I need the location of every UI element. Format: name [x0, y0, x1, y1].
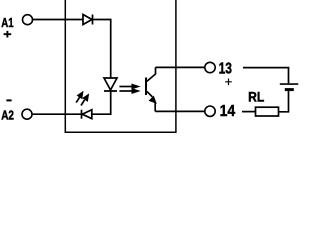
- wire D2 cathode down and left to LED D3: [92, 91, 111, 114]
- battery positive plate (long): [280, 83, 299, 85]
- wire A1 to diode D1: [33, 19, 83, 21]
- wire terminal 13 to battery: [243, 68, 289, 84]
- optocoupler module outline box (open top): [65, 0, 176, 132]
- LED emission arrow 2: [81, 100, 85, 106]
- Q1 collector: [147, 67, 156, 81]
- light arrow upper (opto coupling): [119, 86, 132, 88]
- plus sign at 13: [225, 79, 232, 86]
- svg-text:A1: A1: [1, 15, 13, 30]
- wire A2 to indicator LED: [32, 113, 81, 115]
- terminal 13: [205, 62, 215, 72]
- svg-text:A2: A2: [1, 107, 14, 122]
- indicator LED D3 (pointing left): [82, 110, 92, 119]
- wire collector to terminal 13: [156, 66, 205, 68]
- wire terminal 14 to RL: [242, 111, 256, 113]
- plus sign at A1: [4, 31, 12, 38]
- wire battery to resistor RL: [279, 91, 289, 112]
- minus sign at A2: [6, 99, 11, 101]
- resistor RL (load): [256, 107, 279, 116]
- wire emitter to terminal 14: [155, 110, 204, 112]
- wire D1 to corner, down to opto LED: [93, 20, 111, 79]
- svg-text:14: 14: [220, 103, 236, 120]
- svg-text:RL: RL: [248, 89, 264, 104]
- LED emission arrow 1: [76, 97, 80, 103]
- phototransistor Q1 base bar: [145, 78, 147, 96]
- terminal 14: [205, 106, 215, 116]
- battery negative plate (short, thick): [285, 88, 294, 91]
- Q1 emitter wire down: [154, 102, 156, 111]
- svg-text:13: 13: [219, 61, 232, 78]
- light arrow lower (opto coupling): [119, 90, 132, 92]
- Q1 emitter with arrow: [147, 91, 153, 97]
- diode D1 (series protection, pointing right): [83, 15, 93, 25]
- terminal A1: [23, 15, 33, 25]
- terminal A2: [22, 109, 32, 119]
- optocoupler LED D2 (pointing down): [104, 78, 117, 91]
